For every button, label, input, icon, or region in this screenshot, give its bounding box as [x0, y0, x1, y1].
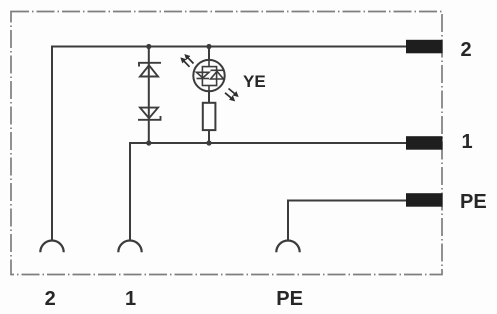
svg-text:2: 2	[461, 39, 472, 61]
terminal contact 1 (dome)	[118, 241, 141, 253]
zener diode V2 (bottom, cathode down)	[138, 108, 161, 120]
LED light-emission arrows (upper left)	[181, 55, 194, 67]
wire resistor to net 1	[208, 130, 210, 143]
svg-text:1: 1	[125, 288, 136, 310]
wire LED to resistor	[208, 91, 210, 102]
zener diode V1 (top, cathode up)	[139, 63, 161, 77]
svg-text:PE: PE	[460, 191, 487, 213]
junction on net 1 at LED branch	[206, 140, 211, 145]
pin block 1	[406, 136, 443, 150]
terminal contact 2 (dome)	[40, 241, 63, 253]
pin block 2	[406, 40, 443, 54]
LED lamp body (circle)	[193, 60, 224, 91]
svg-text:2: 2	[45, 288, 56, 310]
pin block PE	[406, 193, 443, 207]
terminal contact PE (dome)	[276, 240, 299, 252]
wire suppressor branch	[148, 47, 150, 144]
junction on net 2 at suppressor branch	[146, 44, 151, 49]
wire net 1 (terminal 1 up and across to pin block 1)	[130, 143, 409, 241]
resistor R1	[203, 103, 216, 130]
svg-text:PE: PE	[276, 288, 303, 310]
housing outline (dash-dot frame)	[11, 12, 442, 275]
wire net 2 (terminal 2 up and across to pin block 2)	[52, 47, 409, 242]
junction on net 1 at suppressor branch	[146, 140, 151, 145]
LED internal anti-parallel diode pair	[197, 60, 224, 103]
wire LED branch (net 2 to LED)	[208, 47, 210, 61]
svg-text:YE: YE	[243, 72, 266, 91]
wire net PE (terminal PE up and across to pin block PE)	[288, 201, 409, 242]
junction on net 2 at LED branch	[206, 44, 211, 49]
LED light-emission arrows (lower right)	[225, 89, 238, 101]
svg-text:1: 1	[462, 131, 473, 153]
